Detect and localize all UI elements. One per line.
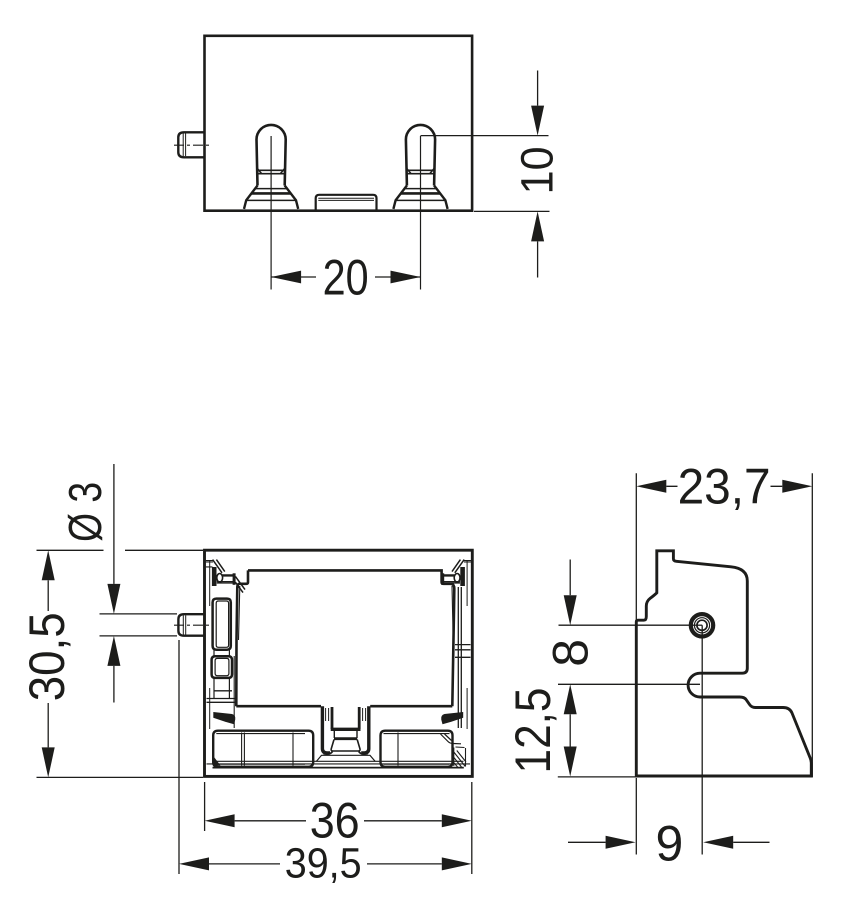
eyelet middle ring xyxy=(694,618,709,633)
svg-text:10: 10 xyxy=(512,146,563,194)
right top hook xyxy=(464,561,471,562)
right pin flare rings xyxy=(404,188,437,190)
fixing stud (top view) xyxy=(178,132,204,157)
svg-text:23,7: 23,7 xyxy=(678,459,771,515)
latch skirt trapezoid xyxy=(316,755,375,761)
dim dia3 lower stem xyxy=(113,666,115,703)
dim 30,5 line upper xyxy=(47,580,49,611)
right-end hatched wedge xyxy=(454,747,466,767)
bottom left box corner wedge xyxy=(214,757,221,766)
left ledges lower xyxy=(207,691,236,703)
dim 36 left extension xyxy=(204,782,206,831)
stud centerline xyxy=(174,144,212,146)
dim 10 upper arrow xyxy=(531,106,544,136)
latch lower box xyxy=(334,737,357,740)
latch thin inner lines xyxy=(326,708,366,721)
right wall inner line xyxy=(466,560,468,729)
latch tab inner line xyxy=(318,198,374,200)
right pin flare xyxy=(393,186,447,209)
eyelet outer ring xyxy=(691,614,713,636)
dim dia3 upper arrow xyxy=(107,584,120,614)
dim 30,5 bottom extension xyxy=(37,776,204,778)
dim 20 right arrow xyxy=(391,271,421,284)
dim 9 left arrow xyxy=(606,836,636,849)
centre latch tab (top view) xyxy=(316,195,377,211)
dim 36 left arrow xyxy=(205,814,235,827)
right pin collar band xyxy=(407,170,434,173)
right ledge channel xyxy=(443,575,460,583)
dim 30,5 top extension xyxy=(37,549,204,551)
latch U bottom xyxy=(331,728,361,731)
dim 10 bottom extension line xyxy=(474,210,550,212)
dim 20 left arrow xyxy=(271,271,301,284)
dim 30,5 upper arrow xyxy=(42,550,55,580)
dim dia3 stem xyxy=(113,464,115,584)
latch outer left wall xyxy=(322,706,330,753)
dim 39,5 right arrow xyxy=(442,857,472,870)
dim 23,7 line xyxy=(666,485,782,487)
floor lines xyxy=(213,760,464,762)
left channel vertical xyxy=(233,656,235,728)
left top hook xyxy=(206,561,213,567)
svg-text:20: 20 xyxy=(323,249,369,305)
bottom right box inner lines xyxy=(384,733,450,766)
left pin outline xyxy=(257,125,286,186)
cavity outline xyxy=(236,570,454,706)
fixing stud (front view) xyxy=(178,614,204,636)
dim 9 left extension (lower part of x=636.3) xyxy=(635,778,637,855)
cavity inner funnel lines xyxy=(239,586,454,640)
latch feet xyxy=(324,752,368,755)
svg-text:39,5: 39,5 xyxy=(285,839,362,887)
dim 8 upper arrow xyxy=(564,595,577,625)
dim 36 right arrow xyxy=(442,814,472,827)
dim 10 lower stem xyxy=(537,241,539,277)
stud chamfer lines xyxy=(183,134,185,157)
dim 23,7 left arrow xyxy=(636,480,666,493)
housing outline (top view) xyxy=(205,36,473,211)
dim 8 extension line xyxy=(559,624,691,626)
dim 12,5 lower arrow xyxy=(564,747,577,777)
dim 9 right extension from eyelet centre xyxy=(701,625,703,854)
dim 39,5 left arrow xyxy=(179,857,209,870)
left pin centreline xyxy=(270,136,272,290)
cavity floor xyxy=(236,705,452,708)
right pin centreline xyxy=(420,136,422,290)
right pin outline xyxy=(406,125,435,186)
bottom right box xyxy=(381,731,453,767)
left pin flare rings xyxy=(254,188,287,190)
stud chamfer lines (front) xyxy=(183,615,185,634)
left connecting verticals xyxy=(214,650,229,699)
dim 9 line right xyxy=(733,841,769,843)
svg-text:12,5: 12,5 xyxy=(505,688,561,774)
right channel verticals xyxy=(458,587,461,728)
left pin collar band xyxy=(258,170,285,173)
svg-text:8: 8 xyxy=(543,639,599,667)
dim 23,7 left extension xyxy=(635,473,637,620)
dim 9 right arrow xyxy=(703,836,733,849)
latch outer right wall xyxy=(361,706,369,753)
right ledges xyxy=(455,645,471,658)
right-end step xyxy=(441,734,462,744)
right dark wedge xyxy=(441,712,463,724)
left ledge channel xyxy=(217,575,234,583)
eyelet inner ring xyxy=(697,620,707,630)
dim 10 top extension line xyxy=(421,135,549,137)
svg-text:30,5: 30,5 xyxy=(19,612,75,701)
latch inner right wall xyxy=(358,707,361,729)
dim 8 upper stem xyxy=(569,560,571,596)
dim 36 right extension / 39,5 right extension xyxy=(471,782,473,874)
dim 9 line left xyxy=(568,841,606,843)
bottom left box xyxy=(213,731,313,767)
stud centreline (front) xyxy=(174,624,212,626)
left clip box A xyxy=(213,599,231,650)
left clip box B xyxy=(212,656,232,678)
latch drop lines xyxy=(334,731,357,738)
dim 30,5 lower arrow xyxy=(42,747,55,777)
bottom left box inner lines xyxy=(216,733,305,766)
dim 23,7 / side bottom right extension xyxy=(811,473,813,777)
dim 8 extension into eyelet xyxy=(690,624,702,626)
latch inner left wall xyxy=(331,707,334,729)
left wall inner line xyxy=(209,560,211,729)
side bottom extension xyxy=(558,776,635,778)
side profile outline xyxy=(636,551,811,776)
dim dia3 extension lines xyxy=(100,614,178,636)
dim 8/12,5 middle extension line xyxy=(558,683,700,685)
svg-text:Ø 3: Ø 3 xyxy=(59,482,111,542)
dim 10 lower arrow xyxy=(531,211,544,241)
housing outline (front view) xyxy=(205,550,473,776)
dim 30,5 line lower xyxy=(47,703,49,747)
dim 39,5 line xyxy=(209,863,442,865)
left diagonal brace xyxy=(235,576,245,592)
dim 12,5 stem xyxy=(569,714,571,746)
dim 10 upper stem xyxy=(537,71,539,106)
dim 20 line xyxy=(271,276,420,278)
dim 36 line xyxy=(235,820,442,822)
dim 12,5 upper arrow xyxy=(564,684,577,714)
dim 23,7 right arrow xyxy=(782,480,812,493)
left pin flare xyxy=(244,186,298,209)
svg-text:9: 9 xyxy=(655,816,683,872)
dim dia3 lower arrow xyxy=(107,636,120,666)
dim 39,5 left extension xyxy=(178,640,180,874)
left dark wedge xyxy=(213,712,235,724)
